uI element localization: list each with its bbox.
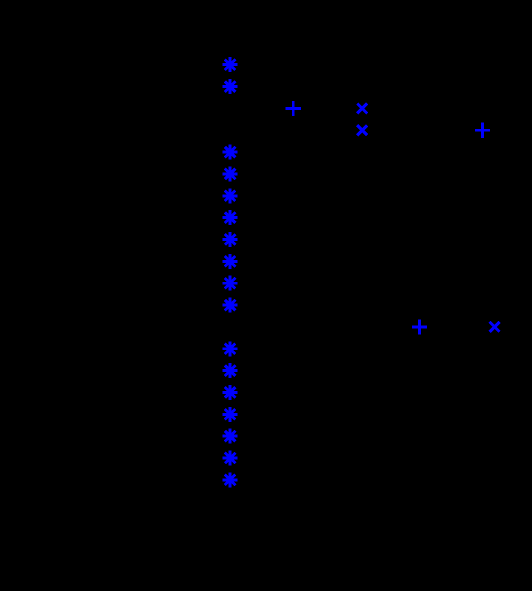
marker + point 3 <box>412 319 427 334</box>
marker + point 2 <box>475 123 490 138</box>
marker * point 15 <box>223 429 238 444</box>
marker * point 3 <box>223 145 238 160</box>
marker * point 9 <box>223 276 238 291</box>
marker * point 4 <box>223 166 238 181</box>
marker x point 3 <box>490 322 500 332</box>
marker x point 1 <box>357 103 367 113</box>
marker * point 2 <box>223 79 238 94</box>
marker * point 17 <box>223 472 238 487</box>
marker x point 2 <box>357 125 367 135</box>
marker * point 5 <box>223 188 238 203</box>
marker * point 13 <box>223 385 238 400</box>
marker * point 7 <box>223 232 238 247</box>
marker * point 12 <box>223 363 238 378</box>
marker * point 11 <box>223 341 238 356</box>
marker * point 14 <box>223 407 238 422</box>
marker * point 16 <box>223 451 238 466</box>
marker + point 1 <box>286 101 301 116</box>
marker * point 1 <box>223 57 238 72</box>
marker * point 6 <box>223 210 238 225</box>
marker * point 8 <box>223 254 238 269</box>
marker * point 10 <box>223 298 238 313</box>
